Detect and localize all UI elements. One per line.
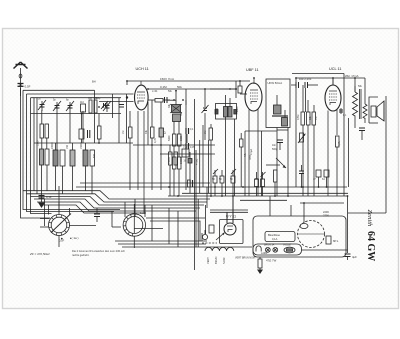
bus y193 <box>182 192 348 194</box>
cap 4uF bottom right <box>345 254 351 260</box>
junction dots <box>81 77 356 197</box>
mains switch link (dashed) <box>202 242 217 244</box>
vertical x148 <box>147 102 149 145</box>
trimmer capacitor 6p <box>66 101 74 111</box>
fuse box bleu/rose <box>265 232 295 242</box>
bus fan line 4 <box>34 199 200 208</box>
node <box>175 90 177 92</box>
svg-text:470Ω: 470Ω <box>195 159 199 165</box>
component value labels <box>37 85 363 181</box>
svg-text:0,5F: 0,5F <box>59 239 65 243</box>
resistor 30 box <box>209 225 214 233</box>
UCL grid resistors <box>301 85 316 196</box>
divider resistor pair 15000 <box>173 157 182 196</box>
cap 0,05uF right of dividers <box>186 143 189 149</box>
svg-text:0,1F: 0,1F <box>46 195 52 199</box>
svg-text:150V 7mA: 150V 7mA <box>160 77 174 81</box>
small boxes 47 64 <box>316 170 329 187</box>
svg-text:Die 2 Gnomen R1 ersetzten den: Die 2 Gnomen R1 ersetzten den Lum 230 oc… <box>72 249 125 253</box>
resistor 1M below tube <box>129 111 133 190</box>
top wire 150V <box>127 81 250 85</box>
cap 40uF before UBF <box>238 81 242 93</box>
wire x305 down <box>305 88 307 112</box>
svg-text:47Ω 7W: 47Ω 7W <box>266 259 277 263</box>
power unit outline box <box>220 220 244 244</box>
tuning gang circle B <box>123 204 163 248</box>
bus fan line 3 <box>31 197 205 206</box>
resistor 0,1M mid-left <box>98 114 102 144</box>
dial box wire <box>300 202 344 204</box>
svg-text:U Y 11: U Y 11 <box>226 215 236 219</box>
resistor 47ohm with ground <box>257 257 263 274</box>
svg-text:20000: 20000 <box>180 157 183 164</box>
electrolytic pair d <box>255 172 266 196</box>
svg-text:UKW 50mA: UKW 50mA <box>268 81 283 85</box>
feed vertical x270 <box>269 197 271 217</box>
volume pot with arrow <box>266 158 286 168</box>
lamp panel rounded box <box>253 244 302 255</box>
IFT3 bottom stub <box>277 129 288 131</box>
svg-text:UBF 11: UBF 11 <box>246 68 259 72</box>
svg-text:150: 150 <box>66 144 69 149</box>
tube UCH11 <box>135 81 149 214</box>
svg-text:47µA: 47µA <box>249 149 253 155</box>
svg-text:VIOLET: VIOLET <box>283 244 292 247</box>
svg-text:5000: 5000 <box>168 135 171 141</box>
coil pack 15000/20000 (hatched) <box>83 143 95 194</box>
cap 47 below tube <box>159 102 164 190</box>
left bundle wire 1 <box>23 89 95 91</box>
IF transformer 3 windings <box>272 95 288 196</box>
svg-text:0,1M: 0,1M <box>160 85 167 89</box>
inner verticals <box>57 94 126 150</box>
wire x203 <box>202 125 204 187</box>
mid verticals to power <box>152 205 178 247</box>
detector web wires <box>245 131 277 196</box>
wire x348.5 down <box>348 118 350 187</box>
svg-text:15000: 15000 <box>80 142 83 149</box>
svg-text:VERT: VERT <box>206 257 210 264</box>
svg-text:LAMP: LAMP <box>261 252 268 255</box>
cap at 301 <box>299 165 304 187</box>
mid-section resistor pair <box>169 145 178 196</box>
output transformer secondary <box>363 90 367 123</box>
cap 40uF mid-left <box>79 114 90 144</box>
left box verticals <box>34 98 37 194</box>
cap 0,1uF right of dividers <box>186 128 189 143</box>
output transformer primary <box>353 86 362 128</box>
left feed verticals <box>205 205 207 234</box>
svg-text:▸( 1a ): ▸( 1a ) <box>70 236 79 240</box>
svg-text:50k: 50k <box>177 85 182 89</box>
wire y200 <box>240 199 287 201</box>
speaker <box>369 96 386 123</box>
svg-text:Bleu/Rose: Bleu/Rose <box>268 233 281 237</box>
resistor pair 20000/30000 (hatched) <box>40 149 50 191</box>
svg-text:1M: 1M <box>122 131 125 134</box>
osc section verticals <box>186 88 206 270</box>
cap below transformer <box>359 128 365 140</box>
svg-text:20000: 20000 <box>51 142 54 149</box>
resistor 300 <box>89 100 92 113</box>
dial drive circle <box>298 221 325 248</box>
svg-text:1a: 1a <box>140 211 144 215</box>
heater tap labels <box>206 257 226 264</box>
svg-text:2200: 2200 <box>323 210 329 214</box>
IF transformer 2 <box>215 95 237 196</box>
small box 110 <box>81 104 86 112</box>
UCL cathode resistor <box>336 136 340 196</box>
cap 0,1uF left-bottom <box>94 208 100 222</box>
dial feed vertical <box>303 203 305 224</box>
svg-text:VERT BRUN NOIR: VERT BRUN NOIR <box>235 257 256 260</box>
svg-text:1M: 1M <box>315 117 318 120</box>
svg-text:10n: 10n <box>272 144 277 147</box>
cap 0,1uF right of UCL <box>339 108 343 114</box>
cap 100pF <box>165 97 177 103</box>
svg-text:300: 300 <box>88 97 93 100</box>
right side vertical wire <box>348 123 386 213</box>
tuning gang circle A <box>40 202 96 239</box>
mains plug 220V <box>202 230 208 241</box>
coupling cap at tube <box>119 105 124 108</box>
svg-text:0,1µF: 0,1µF <box>183 146 190 149</box>
svg-text:0,1A: 0,1A <box>272 237 278 241</box>
gangB pin drops <box>112 199 145 227</box>
gangA pin drops <box>45 186 70 226</box>
svg-text:4µF: 4µF <box>352 255 357 259</box>
mid-section cap <box>188 152 192 193</box>
left bundle wire 2 drop <box>27 94 115 212</box>
bottom wire row c <box>122 246 252 248</box>
wire UCL plate to transformer <box>332 78 334 85</box>
svg-text:64 GW: 64 GW <box>365 231 376 261</box>
ground with cap bottom-left <box>38 191 45 208</box>
svg-text:4,7k: 4,7k <box>153 137 157 143</box>
electrolytic cap 50uF c <box>231 169 236 196</box>
left box row rail <box>31 113 122 115</box>
resistor 330 <box>94 100 97 113</box>
wire x296 down <box>295 88 297 187</box>
bottom wire row a <box>115 240 207 242</box>
long bus y196 <box>168 195 348 197</box>
svg-text:330: 330 <box>94 97 99 100</box>
on-off switch arrow <box>216 232 225 240</box>
svg-text:BRUN JA: BRUN JA <box>264 244 275 247</box>
chassis assembly box <box>253 216 346 257</box>
node dot <box>98 106 100 108</box>
svg-text:4,7k: 4,7k <box>337 140 341 146</box>
resistor 1M detector mid <box>240 133 244 187</box>
vertical x207 <box>206 187 208 208</box>
divider resistor pair 5000 3000 <box>173 134 182 157</box>
svg-text:3000: 3000 <box>180 135 183 141</box>
bus y187 long <box>76 186 347 188</box>
lamp panel right wire <box>302 249 348 251</box>
bottom wire row b <box>118 243 206 245</box>
lamp socket oval <box>284 247 295 253</box>
heater winding bumps <box>205 247 234 251</box>
resistor pair 1500 <box>40 110 49 149</box>
svg-text:6P.L: 6P.L <box>333 239 339 243</box>
vertical x196 lower <box>195 150 197 247</box>
svg-text:UCH 11: UCH 11 <box>136 67 149 71</box>
wire gangB to power b <box>150 221 200 241</box>
wire grid-cap corner to UCH <box>95 90 134 113</box>
bus y192 <box>80 182 210 184</box>
coil pack mid <box>70 143 75 191</box>
detector resistor 1M <box>209 124 213 196</box>
electrolytic cap 50uF a <box>213 169 218 196</box>
svg-text:110: 110 <box>80 101 84 104</box>
right bus verticals <box>344 150 348 253</box>
svg-text:15000: 15000 <box>168 157 171 164</box>
svg-text:0,5M: 0,5M <box>297 115 300 120</box>
osc coupling trimmer <box>202 105 209 113</box>
caps 10n 500p <box>277 140 283 150</box>
electrolytic cap 50uF b <box>220 170 224 196</box>
coil pack 150 (hatched) <box>53 143 65 194</box>
labels lamp colours <box>235 244 292 260</box>
resistor 50k horizontal <box>148 99 170 103</box>
tube UCL11 <box>325 78 341 196</box>
left bundle wire 3 <box>31 97 122 99</box>
mid-section box <box>182 149 189 157</box>
pilot lamp 2 <box>273 247 278 252</box>
tone pot <box>298 133 306 143</box>
antenna <box>14 62 28 96</box>
svg-text:1M: 1M <box>204 131 207 134</box>
bus fan line 6 <box>42 205 147 213</box>
svg-text:2000: 2000 <box>236 106 239 112</box>
cap 25pF <box>305 82 318 88</box>
svg-text:0,5F: 0,5F <box>25 85 31 89</box>
wire IF2 to UBF <box>210 81 247 98</box>
left bundle wire 2 <box>27 93 134 95</box>
svg-text:Wkl. 17mA: Wkl. 17mA <box>345 74 359 78</box>
resistor 40k below tube <box>151 100 155 190</box>
feed vertical x291 <box>290 205 292 216</box>
dropper resistor <box>274 170 278 196</box>
svg-text:10k 2,2nF: 10k 2,2nF <box>299 77 312 81</box>
bus fan line 2 <box>27 194 208 202</box>
trimmer capacitor 5p <box>53 101 61 111</box>
svg-text:BRUN: BRUN <box>214 257 218 264</box>
power feed wires <box>210 209 248 211</box>
small RC pair bottom mid <box>188 180 193 187</box>
tube UBF11 <box>245 78 262 196</box>
antenna down-wire <box>21 88 51 218</box>
svg-text:0,05: 0,05 <box>190 146 195 149</box>
svg-text:2700: 2700 <box>323 213 329 217</box>
bus fan line 5 <box>37 202 196 211</box>
verticals right of mid <box>200 140 209 193</box>
svg-text:Zenith: Zenith <box>366 210 373 228</box>
note text lines <box>72 249 125 257</box>
top wire right section <box>291 74 365 91</box>
svg-text:ZF = 472,5kHz: ZF = 472,5kHz <box>29 252 50 256</box>
svg-text:rechts gedreht.: rechts gedreht. <box>72 253 90 257</box>
osc box right top <box>185 89 187 105</box>
svg-text:300: 300 <box>216 107 219 112</box>
svg-text:NOIR: NOIR <box>222 257 226 264</box>
wire x344 down <box>343 90 345 150</box>
svg-text:1500: 1500 <box>37 140 40 146</box>
pilot lamp 1 <box>265 247 270 252</box>
trimmer capacitor right <box>103 101 111 112</box>
IF transformer 3 box <box>266 79 290 128</box>
rectifier tube UY11 <box>224 196 236 235</box>
svg-text:UCL 11: UCL 11 <box>329 67 341 71</box>
oscillator transformer coils <box>170 91 182 134</box>
gang bottom drops <box>58 236 60 248</box>
dial lamp resistor box <box>326 236 331 244</box>
svg-text:BH: BH <box>92 80 96 84</box>
svg-text:L=44: L=44 <box>152 90 158 93</box>
svg-text:500p: 500p <box>272 148 278 151</box>
wire gangB to power a <box>146 217 205 219</box>
svg-text:500: 500 <box>93 153 96 158</box>
panel loop <box>256 246 261 252</box>
left box mid rail <box>34 142 133 144</box>
screen wire <box>148 88 236 90</box>
bus fan line 1 <box>23 191 210 199</box>
mid bus y145 <box>133 144 215 146</box>
mid wire y154 <box>160 153 215 155</box>
left bundle wire 1 drop <box>23 90 120 209</box>
left bundle wire 3 drop <box>31 98 52 214</box>
trimmer capacitor 30 <box>38 100 46 111</box>
